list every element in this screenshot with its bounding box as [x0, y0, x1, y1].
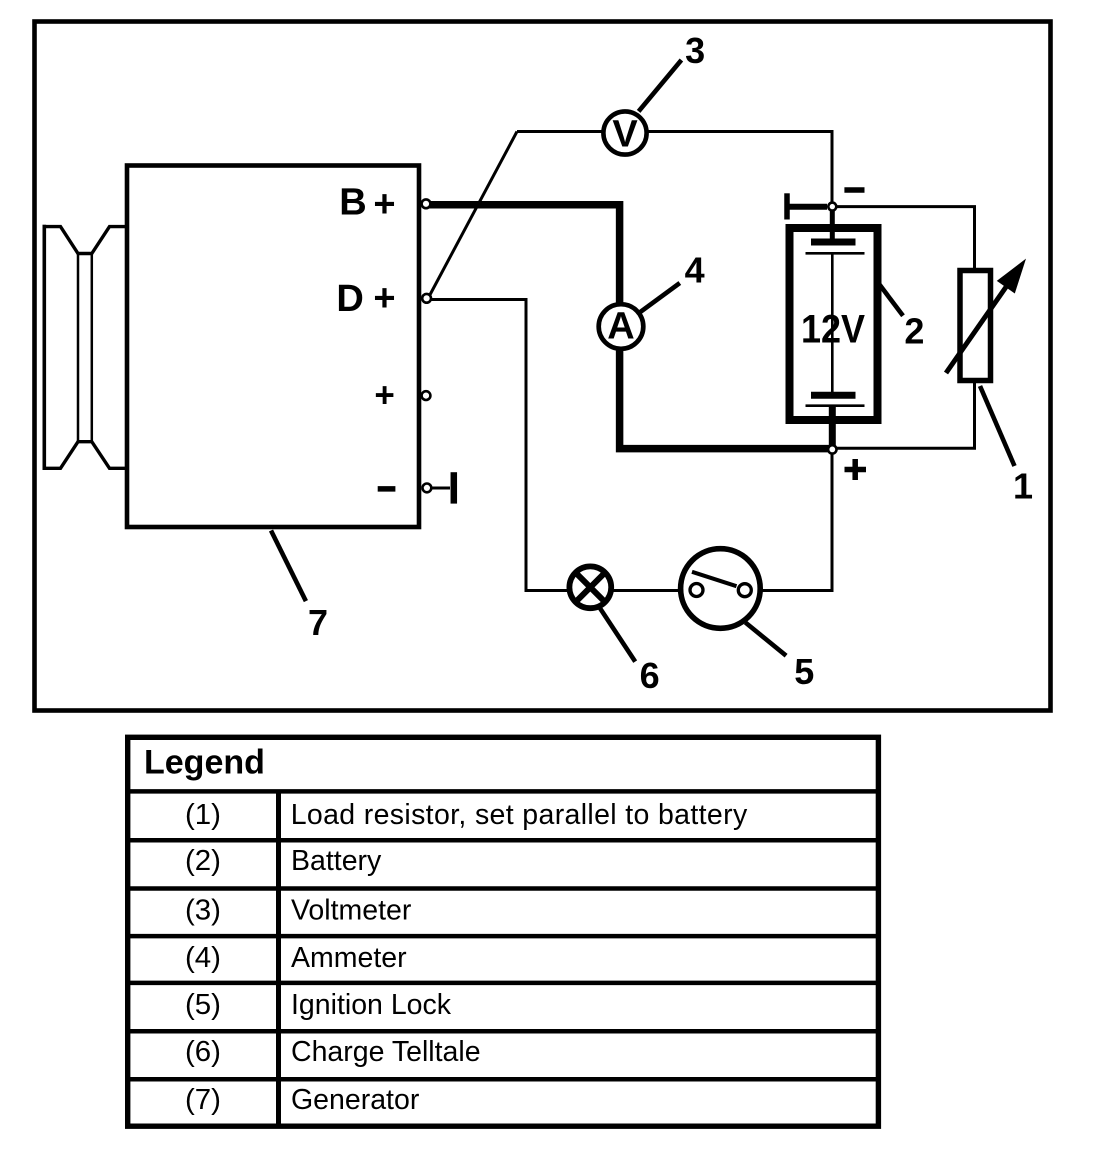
svg-text:+: + [373, 183, 395, 225]
svg-text:Ammeter: Ammeter [291, 942, 407, 974]
svg-text:6: 6 [640, 655, 660, 696]
svg-text:(7): (7) [185, 1084, 221, 1116]
svg-text:5: 5 [794, 651, 814, 692]
svg-text:Load resistor, set parallel to: Load resistor, set parallel to battery [291, 799, 748, 831]
svg-text:V: V [612, 114, 638, 156]
svg-text:(6): (6) [185, 1036, 221, 1068]
svg-text:(5): (5) [185, 989, 221, 1021]
svg-text:Voltmeter: Voltmeter [291, 895, 412, 927]
svg-text:B: B [339, 182, 366, 224]
svg-text:7: 7 [308, 602, 328, 643]
svg-text:3: 3 [685, 30, 705, 71]
svg-text:2: 2 [904, 310, 924, 351]
svg-text:(1): (1) [185, 799, 221, 831]
svg-text:A: A [607, 306, 634, 348]
svg-text:4: 4 [685, 249, 705, 290]
svg-text:D: D [336, 278, 363, 320]
svg-text:Ignition Lock: Ignition Lock [291, 989, 452, 1021]
svg-text:Charge Telltale: Charge Telltale [291, 1036, 481, 1068]
svg-text:+: + [374, 376, 394, 415]
svg-text:12V: 12V [801, 308, 865, 352]
svg-text:Legend: Legend [144, 744, 265, 782]
svg-text:(3): (3) [185, 895, 221, 927]
svg-text:+: + [373, 278, 395, 320]
svg-text:Generator: Generator [291, 1084, 420, 1116]
svg-text:(2): (2) [185, 845, 221, 877]
svg-text:(4): (4) [185, 942, 221, 974]
svg-text:1: 1 [1013, 465, 1033, 506]
svg-text:Battery: Battery [291, 845, 382, 877]
